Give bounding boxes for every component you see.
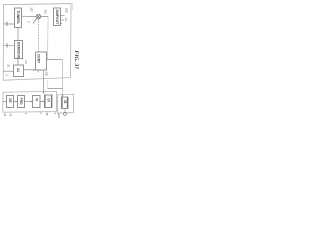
svg-text:DEMODUL: DEMODUL — [17, 42, 21, 59]
svg-text:DE: DE — [8, 98, 12, 102]
svg-text:321: 321 — [57, 113, 61, 118]
svg-text:35: 35 — [45, 112, 49, 116]
svg-text:FIG. 37: FIG. 37 — [73, 50, 79, 70]
svg-text:PRO: PRO — [19, 98, 23, 105]
svg-text:VI: VI — [34, 98, 38, 101]
svg-text:CONT: CONT — [37, 54, 41, 63]
svg-text:21: 21 — [16, 68, 20, 72]
svg-text:24: 24 — [64, 18, 68, 22]
svg-text:AMPOUT: AMPOUT — [55, 10, 59, 26]
svg-text:24: 24 — [24, 61, 28, 65]
svg-text:31: 31 — [3, 113, 7, 117]
svg-text:21: 21 — [63, 100, 67, 104]
svg-text:TUNER1: TUNER1 — [16, 10, 20, 24]
svg-text:310: 310 — [5, 43, 9, 48]
svg-text:DI: DI — [46, 98, 50, 101]
svg-text:32: 32 — [8, 113, 12, 117]
svg-text:320: 320 — [45, 71, 49, 76]
svg-text:301: 301 — [5, 22, 8, 27]
svg-text:313: 313 — [43, 9, 47, 14]
svg-text:802: 802 — [65, 8, 69, 13]
svg-text:31: 31 — [7, 64, 11, 68]
svg-text:312: 312 — [29, 7, 33, 12]
